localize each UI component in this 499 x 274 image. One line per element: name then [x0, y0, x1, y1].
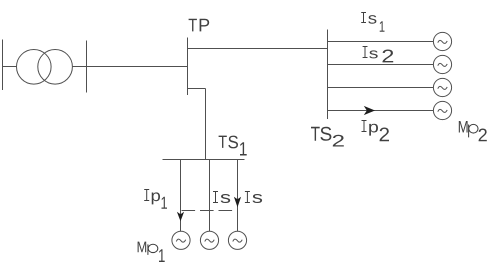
motor M7 circle	[228, 231, 246, 249]
tilde M3	[438, 86, 447, 89]
bus TS2	[327, 30, 329, 120]
label Is drop2	[213, 192, 230, 204]
wire drop 3	[237, 160, 239, 232]
label TS2	[311, 127, 344, 147]
motor M5 circle	[172, 231, 190, 249]
arrow Ip1	[177, 212, 184, 222]
bus TS1	[163, 159, 245, 161]
terminal bar left	[2, 40, 4, 91]
wire TP tap	[188, 88, 206, 90]
wire transformer to TP	[72, 66, 187, 68]
tilde M6	[205, 239, 214, 242]
label Is2	[363, 47, 394, 63]
wire TP to TS2	[188, 48, 328, 50]
arrow Ip2	[364, 106, 375, 115]
tilde M1	[438, 40, 447, 43]
wire feeder 4	[328, 110, 434, 112]
motor M2 circle	[433, 55, 451, 73]
wire feeder 3	[328, 87, 434, 89]
label Is drop3	[245, 192, 262, 204]
label Ip1	[144, 190, 167, 209]
wire feeder 1	[328, 41, 434, 43]
breaker bar	[86, 41, 88, 93]
label Mp1	[138, 242, 165, 262]
motor M6 circle	[200, 231, 218, 249]
tilde M7	[233, 239, 242, 242]
wire terminal to transformer	[3, 66, 17, 68]
wire drop 2	[209, 160, 211, 232]
label Ip2	[362, 121, 390, 142]
motor M4 circle	[433, 101, 451, 119]
label TS1	[219, 136, 247, 156]
transformer T1 secondary winding	[38, 50, 73, 85]
tilde M4	[438, 109, 447, 112]
label Mp2	[459, 121, 487, 141]
wire feeder 2	[328, 64, 434, 66]
transformer T1 primary winding	[17, 50, 52, 85]
arrow Is drop3	[234, 197, 241, 208]
label Is1	[361, 13, 384, 32]
tilde M2	[438, 63, 447, 66]
motor M1 circle	[433, 32, 451, 50]
dashed link	[182, 210, 238, 212]
bus TP	[187, 38, 189, 96]
wire drop 1	[180, 160, 182, 232]
wire down to TS1	[205, 89, 207, 160]
motor M3 circle	[433, 78, 451, 96]
label TP	[189, 19, 210, 32]
tilde M5	[176, 239, 185, 242]
